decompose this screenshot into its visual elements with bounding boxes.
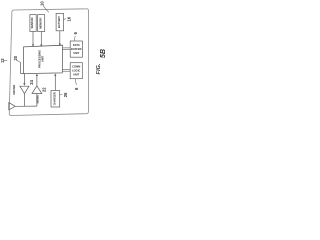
svg-text:BUFFER: BUFFER bbox=[71, 47, 82, 51]
wire from block C down to processing block bbox=[59, 31, 61, 45]
svg-text:SENSOR: SENSOR bbox=[30, 17, 34, 28]
block D (bottom, vertical text) bbox=[51, 91, 60, 108]
data block R2 (right lower) bbox=[70, 63, 82, 79]
leader line for label 6 bbox=[73, 36, 76, 41]
leader tick for label 12 bbox=[4, 60, 7, 62]
svg-text:20: 20 bbox=[13, 55, 18, 60]
svg-text:DATA: DATA bbox=[73, 43, 80, 47]
svg-text:CHARGER: CHARGER bbox=[52, 92, 56, 105]
svg-text:COMM: COMM bbox=[72, 65, 80, 69]
block C (top right, vertical text) bbox=[56, 13, 64, 30]
antenna bbox=[9, 103, 15, 110]
wire from block D up into processing unit bbox=[54, 75, 56, 91]
svg-text:22: 22 bbox=[42, 87, 47, 92]
wire drop into driver amp bbox=[23, 74, 25, 85]
block A (top left, vertical text) bbox=[30, 15, 36, 32]
leader tick for label 26 bbox=[60, 93, 63, 95]
svg-text:SENSE: SENSE bbox=[36, 95, 40, 104]
svg-text:UNIT: UNIT bbox=[73, 73, 79, 77]
svg-text:24: 24 bbox=[29, 79, 34, 84]
antenna feed wire bbox=[15, 105, 37, 107]
sense amplifier (up-pointing triangle) bbox=[32, 86, 42, 94]
svg-text:UNIT: UNIT bbox=[41, 55, 45, 62]
driver amplifier (down-pointing triangle) bbox=[20, 86, 29, 93]
wire from feed up to sense amp bbox=[36, 94, 38, 107]
svg-text:26: 26 bbox=[63, 92, 68, 97]
leader line for label 20 bbox=[16, 60, 20, 62]
bus between processing unit and R1 bbox=[62, 47, 70, 49]
processing unit block (large center) bbox=[23, 45, 62, 73]
leader line for label 8 bbox=[75, 79, 76, 85]
svg-text:MEMORY: MEMORY bbox=[38, 17, 42, 29]
block B (top middle, vertical text) bbox=[38, 15, 45, 32]
wire from block B down to processing block bbox=[40, 32, 42, 46]
data block R1 (right upper) bbox=[70, 41, 82, 57]
leader line for label 10 bbox=[43, 5, 49, 12]
svg-text:DRIVER: DRIVER bbox=[12, 85, 16, 95]
svg-text:16: 16 bbox=[67, 16, 72, 21]
svg-text:5B: 5B bbox=[98, 49, 107, 58]
svg-text:LOGIC: LOGIC bbox=[72, 69, 80, 73]
svg-text:BATTERY: BATTERY bbox=[57, 16, 61, 28]
label 16 bbox=[64, 18, 66, 21]
outer device boundary box 10 bbox=[9, 9, 88, 116]
svg-text:FIG.: FIG. bbox=[96, 63, 102, 74]
svg-text:10: 10 bbox=[40, 1, 45, 6]
wire from driver amp to antenna feed bbox=[23, 94, 25, 107]
wire from sense amp up into processing unit bbox=[36, 75, 38, 86]
wire from block A down to processing block bbox=[32, 32, 34, 46]
bus between processing unit and R2 bbox=[62, 69, 70, 71]
svg-text:UNIT: UNIT bbox=[73, 51, 79, 55]
wire riser node 20 bbox=[21, 62, 24, 73]
